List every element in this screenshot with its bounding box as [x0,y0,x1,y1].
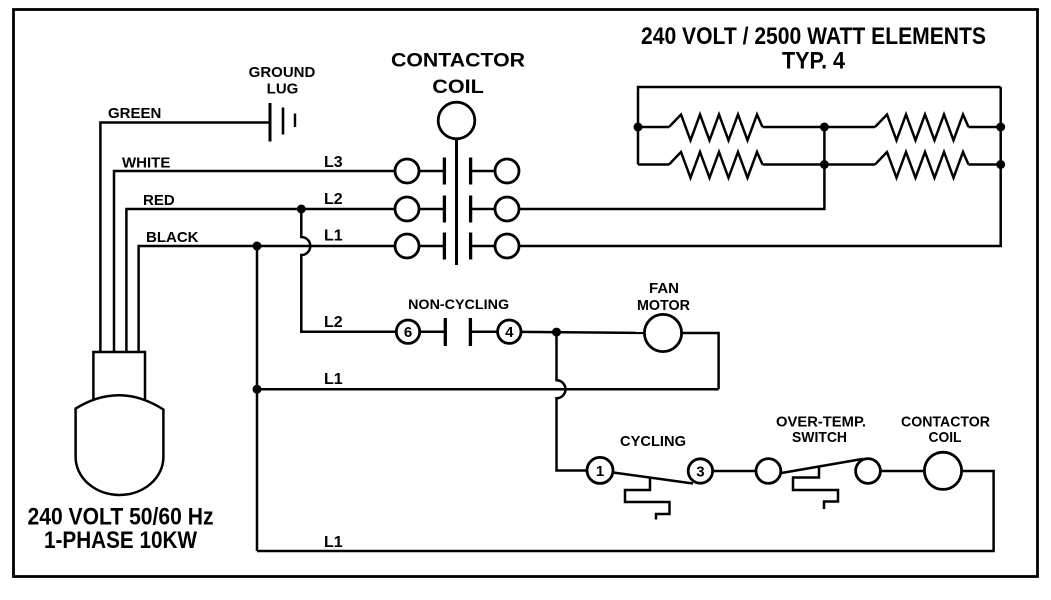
svg-text:4: 4 [505,324,514,341]
svg-text:CYCLING: CYCLING [620,433,686,450]
svg-text:GREEN: GREEN [108,105,161,122]
resistor element bottom-left [638,152,824,178]
node element right top [996,123,1005,132]
node black junction [253,242,262,251]
non-cycling thermostat terminal 6 [396,320,419,343]
non-cycling thermostat terminal 4 [498,320,521,343]
wire green vertical+horizontal to ground [100,123,269,353]
node element right bottom [996,160,1005,169]
contactor pole L3: circle, bars, circle [395,158,519,185]
svg-text:L1: L1 [324,534,343,551]
svg-text:OVER-TEMP.: OVER-TEMP. [776,414,866,431]
wire branch to cycling switch with hop over L1 [557,332,588,470]
svg-text:TYP. 4: TYP. 4 [782,48,846,75]
wire L2 to element center node [519,165,824,210]
svg-text:GROUND: GROUND [249,64,316,81]
svg-text:L2: L2 [324,314,343,331]
node element left [634,123,643,132]
power plug body [76,395,164,495]
svg-text:COIL: COIL [432,77,484,98]
wire cycling to over-temp [713,470,756,473]
cycling switch thermal element [625,478,670,520]
cycling switch arm [613,473,693,484]
wire L1 to element right rail [519,87,1001,246]
cycling switch terminal 1 [587,457,613,483]
resistor element top-left [638,115,824,141]
svg-text:LUG: LUG [267,81,299,98]
svg-text:BLACK: BLACK [146,229,199,246]
svg-text:RED: RED [143,192,175,209]
svg-text:NON-CYCLING: NON-CYCLING [408,296,509,312]
svg-text:WHITE: WHITE [122,155,170,172]
wire black L1 [139,246,395,352]
ground lug symbol [270,103,295,142]
cycling switch terminal 3 [688,459,712,483]
wire terminal 4 to fan motor [521,332,644,333]
contactor pole L2 [395,196,519,223]
wire fan motor return to L1 [682,333,719,389]
node red junction [297,205,306,214]
wire coil return to L1 bottom [257,471,994,551]
fan motor M1 [644,314,681,351]
wire red L2 [126,209,395,352]
resistor element top-right [824,115,1000,141]
svg-text:6: 6 [404,324,412,341]
svg-text:FAN: FAN [649,280,679,297]
wire over-temp to contactor coil [880,470,924,473]
wire white L3 [114,171,395,352]
svg-text:MOTOR: MOTOR [637,297,690,314]
power plug neck [93,352,145,400]
svg-text:L1: L1 [324,371,343,388]
svg-text:L2: L2 [324,191,343,208]
contactor coil (right) circle [924,452,961,489]
wire black branch down to bottom L1 [256,246,259,551]
svg-text:CONTACTOR: CONTACTOR [391,51,525,72]
contactor pole L1 [395,233,519,260]
svg-text:1-PHASE 10KW: 1-PHASE 10KW [44,527,197,554]
wire L1 middle run [257,388,719,391]
over-temp switch arm [782,459,864,473]
non-cycling contact [420,318,498,346]
svg-text:SWITCH: SWITCH [792,429,847,446]
svg-text:COIL: COIL [929,429,962,446]
wire red branch down to non-cycling with hop over L1 [301,209,396,332]
wire element center vertical [823,127,826,165]
svg-text:3: 3 [696,463,704,480]
node element center top [820,123,829,132]
contactor coil K1 circle [438,102,475,139]
svg-text:L1: L1 [324,228,343,245]
svg-text:CONTACTOR: CONTACTOR [901,414,990,431]
node fan/cycling branch [552,328,561,337]
node element center bottom [820,160,829,169]
svg-text:L3: L3 [324,154,343,171]
over-temp switch thermal element [793,466,838,509]
over-temp switch left terminal [756,459,781,484]
over-temp switch right terminal [856,459,881,484]
resistor element bottom-right [824,152,1000,178]
wire element top rail [638,87,1001,165]
svg-text:240 VOLT / 2500 WATT ELEMENTS: 240 VOLT / 2500 WATT ELEMENTS [641,23,986,50]
svg-text:1: 1 [596,463,604,480]
contactor armature line [455,139,458,265]
node L1 middle branch [253,385,262,394]
